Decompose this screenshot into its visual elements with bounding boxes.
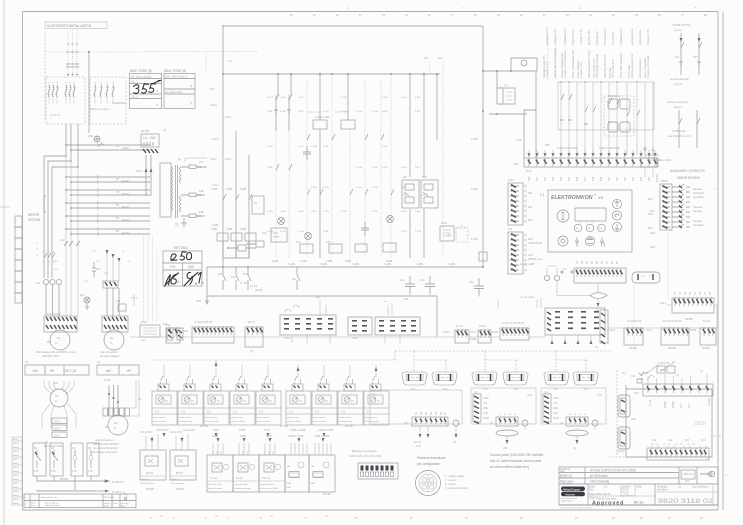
svg-text:K11B: K11B [323, 231, 329, 233]
svg-text:4-10B: 4-10B [300, 260, 307, 263]
small connector box 1x1 [503, 88, 515, 104]
bus to arrows [37, 476, 95, 481]
bus y71 right [483, 70, 537, 72]
svg-text:Marking of connectors: Marking of connectors [352, 450, 377, 453]
arrows above row2 [217, 438, 325, 442]
svg-text:X04: X04 [443, 388, 448, 391]
strip SP31B [690, 320, 716, 350]
risers x278 x291 [277, 74, 279, 95]
svg-text:24Vdc: 24Vdc [672, 400, 675, 408]
svg-text:K13: K13 [296, 241, 301, 244]
svg-text:1X0-2: 1X0-2 [225, 158, 232, 161]
center ladder bus y74 risers [275, 95, 277, 131]
bottom strip of title block [559, 504, 718, 506]
top bus from feed [223, 25, 483, 26]
svg-text:24V: 24V [210, 88, 215, 91]
svg-text:Size: Size [589, 489, 594, 492]
svg-text:(t): (t) [190, 102, 193, 105]
svg-text:4-10B: 4-10B [298, 231, 304, 233]
svg-text:meter: meter [273, 236, 280, 239]
svg-text:K16B: K16B [280, 231, 286, 233]
svg-text:combined 1TS: combined 1TS [620, 29, 623, 45]
svg-text:(k): (k) [596, 309, 599, 312]
svg-text:CUSTOMER'S INSTALLATION: CUSTOMER'S INSTALLATION [47, 24, 92, 28]
svg-text:1X0-2: 1X0-2 [298, 111, 305, 113]
switch box 3 [71, 443, 83, 476]
svg-text:HP: HP [50, 369, 54, 373]
capacitor C10 [474, 278, 484, 297]
box S1 [252, 196, 264, 214]
PE earth circle symbol [94, 136, 100, 142]
upper label block second tier [546, 27, 650, 45]
bottom ruler ticks [150, 516, 703, 520]
svg-text:K16B: K16B [372, 211, 378, 213]
dashed fuse cabinet box 2 [90, 77, 126, 124]
dryer contact component [118, 304, 126, 311]
svg-text:UL (Class RK5): UL (Class RK5) [165, 91, 182, 94]
svg-text:SP53B: SP53B [685, 318, 693, 321]
module frame [471, 388, 536, 424]
svg-text:K07: K07 [685, 439, 690, 442]
svg-text:1.1: 1.1 [540, 193, 545, 197]
svg-text:1K2: 1K2 [60, 239, 65, 242]
rail micro labels [36, 243, 131, 283]
wire y114 [489, 113, 527, 115]
svg-text:GND(k): GND(k) [708, 397, 711, 406]
button up [612, 199, 621, 208]
svg-text:TXD: TXD [553, 412, 558, 415]
svg-text:1F10: 1F10 [508, 179, 514, 182]
svg-text:1K1: 1K1 [54, 382, 59, 385]
svg-text:K16B: K16B [382, 97, 388, 99]
svg-text:Manual/: Manual/ [693, 188, 702, 191]
svg-text:K1 B: K1 B [264, 429, 270, 432]
output wires [181, 167, 207, 216]
fuse 1K6 [92, 262, 96, 277]
svg-text:(c): (c) [676, 374, 679, 377]
svg-text:2021-8: 2021-8 [13, 467, 19, 469]
svg-text:K14: K14 [326, 241, 331, 244]
svg-text:rpm: rpm [141, 339, 145, 342]
svg-text:pressure more: pressure more [631, 28, 634, 45]
svg-text:1X1: 1X1 [508, 228, 513, 231]
svg-text:1X0-2: 1X0-2 [401, 187, 408, 189]
wires above row2 cells [213, 443, 331, 455]
svg-text:kW: kW [33, 369, 38, 373]
cell SP111 [140, 450, 166, 480]
svg-text:(1C20): (1C20) [255, 289, 263, 292]
svg-text:4A/2P: 4A/2P [122, 232, 129, 235]
svg-text:solenoid valve: solenoid valve [208, 484, 223, 486]
oval below [566, 430, 588, 436]
svg-text:K14B: K14B [341, 97, 347, 99]
svg-text:X106: X106 [443, 331, 449, 334]
dsub X13a [472, 372, 497, 385]
curves above [285, 305, 299, 312]
svg-text:S2 (x): S2 (x) [236, 477, 243, 480]
top strip 1X9 [643, 384, 713, 396]
customer installation label box [45, 22, 107, 29]
delta motor wires [108, 385, 119, 415]
hour counter box [271, 228, 287, 242]
svg-text:see FIGURE on 9(1): see FIGURE on 9(1) [648, 159, 671, 162]
wires above SP111 [146, 434, 158, 450]
circle pin [592, 420, 598, 426]
svg-text:REV G: REV G [13, 495, 19, 497]
relay block K08 [421, 180, 438, 208]
wire L1 [67, 30, 69, 77]
svg-text:K07: K07 [403, 176, 408, 179]
svg-text:General: General [693, 220, 702, 223]
svg-text:2X04: 2X04 [441, 222, 447, 225]
right small cells [681, 470, 695, 479]
svg-text:150HR OR 80%: 150HR OR 80% [677, 176, 700, 180]
svg-text:4A/2P: 4A/2P [122, 193, 129, 196]
svg-text:Crossmatch: Crossmatch [560, 482, 573, 485]
strip X104 main [192, 327, 234, 343]
handwriting 9.1A [184, 272, 201, 286]
svg-text:+24: +24 [483, 402, 488, 405]
svg-text:4-105 4-105: 4-105 4-105 [645, 154, 659, 157]
svg-text:A01: A01 [528, 192, 533, 195]
svg-text:HP: HP [127, 369, 131, 373]
PE lamp circle [84, 297, 90, 303]
strip 1F10 box [508, 183, 523, 225]
labels right of 1F10 [528, 192, 533, 222]
svg-text:sensing com: sensing com [596, 31, 599, 45]
svg-text:1K1/2 TA1/2: 1K1/2 TA1/2 [47, 313, 61, 316]
svg-text:REV E: REV E [13, 479, 19, 481]
svg-text:4-10B: 4-10B [320, 263, 327, 266]
strip SP72B [609, 320, 643, 350]
svg-text:K10B: K10B [267, 167, 273, 169]
handwriting 355 [134, 80, 162, 93]
svg-text:K16B: K16B [401, 211, 407, 213]
contactor 1K7 [297, 267, 300, 290]
svg-text:SP6B: SP6B [661, 180, 668, 183]
svg-text:+ +: + + [384, 300, 388, 303]
svg-text:Pressure transducer: Pressure transducer [417, 456, 447, 460]
svg-text:103: 103 [552, 176, 555, 181]
frame border bottom [23, 509, 719, 511]
svg-text:1 MB 42 1: 1 MB 42 1 [682, 473, 694, 476]
svg-text:SP70B: SP70B [200, 425, 208, 428]
bottom labels [272, 260, 392, 263]
svg-text:1 fused + 1TS: 1 fused + 1TS [546, 62, 549, 78]
1F13 boxes [52, 418, 67, 424]
svg-text:X104: X104 [284, 337, 290, 340]
node marks [67, 43, 78, 45]
switch box 4 [87, 443, 99, 476]
svg-text:Automatic: Automatic [693, 192, 705, 195]
svg-text:109: 109 [600, 176, 603, 181]
F1 F2 F3 buttons [574, 224, 582, 232]
right vertical strip [600, 310, 608, 343]
wires with arrows down from 1X0 [145, 155, 147, 196]
svg-text:24V: 24V [150, 136, 157, 140]
atlas copco logo [561, 487, 585, 503]
rotated labels below strip [649, 397, 711, 408]
svg-text:1X0-2: 1X0-2 [212, 184, 219, 187]
svg-text:106: 106 [576, 176, 579, 181]
svg-text:4A/2P: 4A/2P [122, 219, 129, 222]
cell 8 [338, 376, 363, 425]
svg-text:104: 104 [560, 176, 563, 181]
svg-text:K11.1: K11.1 [609, 329, 616, 332]
svg-text:K12: K12 [668, 439, 673, 442]
oval below [496, 430, 518, 436]
svg-text:1X0-6: 1X0-6 [210, 104, 217, 107]
svg-text:RXD: RXD [483, 407, 488, 410]
svg-text:1X0-2: 1X0-2 [298, 97, 305, 99]
svg-text:5614: 5614 [104, 506, 110, 508]
icon volt [575, 237, 579, 247]
dashed bus y351 [152, 359, 395, 361]
dryer option bracket [44, 196, 46, 212]
junction dots on box top [560, 81, 638, 83]
svg-text:X04: X04 [514, 388, 519, 391]
svg-text:see FIGURE on 9(1): see FIGURE on 9(1) [668, 135, 691, 138]
svg-text:A09: A09 [528, 238, 533, 241]
frame left paper edge [3, 0, 5, 525]
arrowheads into strip [528, 153, 657, 157]
connector block X104 (grid) [280, 296, 336, 343]
svg-text:105: 105 [568, 176, 571, 181]
strip 1X1 box [508, 232, 523, 274]
contact K01 [223, 194, 226, 200]
svg-text:K16B: K16B [298, 211, 304, 213]
svg-text:4-10B 4-10B: 4-10B 4-10B [315, 116, 329, 119]
dashed vertical x634 [633, 285, 635, 352]
ladder dotted columns x429 x443 [429, 60, 431, 74]
svg-text:1x1: 1x1 [228, 60, 233, 63]
svg-text:SP32B: SP32B [60, 478, 68, 481]
svg-text:K10B: K10B [240, 188, 246, 191]
svg-text:17-18: 17-18 [240, 282, 247, 285]
svg-text:All other voltages: All other voltages [100, 355, 120, 358]
svg-text:K09: K09 [648, 227, 653, 230]
svg-text:K11: K11 [652, 439, 657, 442]
dsub X11b [432, 372, 457, 385]
bus from block to right strips [608, 327, 717, 329]
svg-text:1F13: 1F13 [54, 421, 60, 424]
strip 4pin [245, 327, 263, 347]
icon alarm button [585, 236, 594, 245]
rung bottom [223, 241, 249, 258]
svg-text:(d): (d) [45, 441, 48, 444]
strip box [524, 158, 658, 167]
hatch dark on contact column [679, 186, 682, 229]
svg-text:OPTION: OPTION [28, 218, 41, 222]
three phase wires down [65, 124, 67, 156]
pin hatches below 1X0 [143, 149, 158, 153]
svg-text:SF:1.15: SF:1.15 [65, 369, 76, 373]
svg-text:4-10B: 4-10B [471, 188, 478, 191]
svg-text:X10B: X10B [470, 338, 476, 341]
svg-text:A: A [201, 280, 204, 285]
svg-text:110: 110 [608, 176, 611, 181]
svg-text:PRESS(m): PRESS(m) [608, 95, 620, 98]
svg-text:1548: 1548 [286, 487, 292, 489]
svg-text:blowoff unload: blowoff unload [208, 488, 223, 490]
bus wire y337 left [130, 336, 455, 338]
svg-text:K16B: K16B [226, 228, 232, 231]
switch 1S3 [248, 267, 251, 290]
left feed into strip [524, 110, 536, 158]
ladder wire number labels [267, 97, 422, 233]
svg-text:1X0-2: 1X0-2 [401, 231, 408, 233]
svg-text:K16B: K16B [211, 228, 217, 231]
svg-text:1 fused + 1TS combined: 1 fused + 1TS combined [564, 50, 567, 78]
svg-text:X10: X10 [553, 388, 558, 391]
svg-text:K08: K08 [422, 176, 427, 179]
capacitor symbols mid ladder [303, 146, 311, 160]
coil box D [355, 244, 367, 252]
svg-text:F12: F12 [197, 215, 202, 218]
svg-text:SP72B: SP72B [629, 347, 637, 350]
svg-text:K11: K11 [675, 56, 680, 59]
svg-text:item: item [31, 504, 35, 507]
main feed wire down [88, 52, 90, 133]
svg-text:4-10B: 4-10B [448, 263, 455, 266]
delta motor M2 [108, 415, 128, 435]
transducer circle [416, 471, 441, 496]
dotted verticals group [276, 74, 391, 258]
svg-text:(m): (m) [544, 391, 548, 394]
svg-text:1TS: 1TS [34, 470, 39, 473]
dsub X13b [503, 372, 528, 385]
svg-text:4 : wired with dummy: 4 : wired with dummy [445, 487, 469, 490]
svg-text:(x): (x) [573, 447, 576, 450]
svg-text:K10B: K10B [272, 260, 278, 263]
svg-text:SP70B: SP70B [280, 425, 288, 428]
svg-text:A02: A02 [528, 206, 533, 209]
svg-text:as shown within dotted line): as shown within dotted line) [490, 465, 529, 469]
svg-text:K05: K05 [545, 144, 550, 147]
svg-text:K1 K2: K1 K2 [479, 325, 486, 328]
svg-text:AUXILIARY CONTACTS: AUXILIARY CONTACTS [670, 169, 705, 173]
svg-text:remote start/stop: remote start/stop [670, 78, 689, 81]
rotated labels above [415, 411, 447, 415]
switch box 2 [50, 443, 63, 476]
svg-text:24V: 24V [316, 296, 321, 299]
svg-text:1-10B: 1-10B [323, 211, 329, 213]
svg-text:PE: PE [105, 426, 109, 429]
small box on feeder x483 [479, 252, 487, 261]
bus wire y337 right [529, 336, 545, 338]
svg-text:4A/2P: 4A/2P [122, 180, 129, 183]
dotted drop from dashed branch [205, 52, 207, 74]
svg-text:10K(m): 10K(m) [656, 174, 659, 182]
breaker labels [116, 145, 129, 235]
svg-text:1TS: 1TS [51, 470, 56, 473]
svg-text:X11 & X04: X11 & X04 [170, 431, 182, 434]
svg-text:warning: warning [693, 210, 702, 213]
svg-text:K10B: K10B [415, 97, 421, 99]
svg-text:1X0-2: 1X0-2 [267, 97, 274, 99]
svg-text:(c): (c) [700, 370, 703, 373]
left pin column [543, 394, 551, 422]
svg-text:K10B: K10B [345, 260, 351, 263]
svg-text:DP filter alarm: DP filter alarm [141, 482, 155, 485]
svg-text:CSA - HRC Form 1Y: CSA - HRC Form 1Y [165, 76, 188, 79]
frame border left [22, 12, 24, 511]
svg-text:C1 C2: C1 C2 [250, 285, 258, 288]
svg-text:2022-3: 2022-3 [13, 499, 19, 501]
valve cell S2 [233, 451, 259, 492]
svg-text:(m): (m) [504, 84, 508, 87]
svg-text:GND: GND [553, 397, 559, 400]
bus wire y337 mid [469, 336, 500, 338]
svg-text:K14: K14 [163, 323, 168, 326]
svg-text:Approved: Approved [592, 501, 624, 507]
frame tick right [713, 435, 721, 437]
svg-text:1X6: 1X6 [514, 163, 519, 166]
svg-text:(k): (k) [163, 129, 166, 132]
svg-text:M2: M2 [110, 337, 114, 340]
svg-text:X104: X104 [182, 330, 188, 333]
small rounded boxes pairs inside contact region [604, 95, 634, 136]
svg-text:1K1: 1K1 [116, 300, 121, 303]
svg-text:100: 100 [685, 480, 690, 483]
svg-text:1TS wired com: 1TS wired com [604, 28, 607, 45]
svg-text:4-10B 4-10B: 4-10B 4-10B [520, 263, 534, 266]
svg-text:K10B: K10B [211, 188, 217, 191]
solid verticals group [320, 74, 437, 258]
mid cells [589, 486, 642, 500]
left connector 2 [617, 427, 630, 453]
svg-text:11B: 11B [199, 190, 204, 193]
svg-text:16B: 16B [199, 211, 204, 214]
svg-text:1X0-2: 1X0-2 [225, 116, 232, 119]
svg-text:1 fused + 1TS wired: 1 fused + 1TS wired [647, 55, 650, 78]
svg-text:combined 1TS: combined 1TS [564, 29, 567, 45]
svg-text:operation: operation [693, 196, 704, 199]
left feeder [498, 298, 541, 308]
svg-text:113: 113 [632, 176, 635, 181]
circle pin [453, 420, 459, 426]
valve cell Y51 [259, 451, 285, 492]
svg-text:K14B: K14B [382, 111, 388, 113]
ladder rail x236 [235, 131, 237, 258]
bottom pin strip [496, 417, 518, 426]
svg-text:Y1 (x): Y1 (x) [210, 477, 217, 480]
svg-text:1X0-2: 1X0-2 [210, 158, 217, 161]
cell E2 [309, 455, 335, 496]
svg-text:DP DU filter 1TS: DP DU filter 1TS [612, 59, 615, 78]
svg-text:2F21: 2F21 [141, 321, 147, 324]
svg-text:LINE-VALVE: LINE-VALVE [528, 242, 542, 245]
svg-text:A10: A10 [528, 254, 533, 257]
svg-text:1 fused + 1TS: 1 fused + 1TS [580, 62, 583, 78]
svg-text:K10B: K10B [212, 435, 218, 438]
1F10 pins [510, 185, 519, 223]
svg-text:(mod): (mod) [617, 450, 624, 453]
svg-text:PE: PE [47, 341, 51, 344]
svg-text:1TS: 1TS [72, 470, 77, 473]
svg-text:(m): (m) [622, 372, 626, 375]
interlock wires [681, 33, 699, 75]
svg-text:Star connection: Star connection [100, 351, 118, 354]
svg-text:SP57B: SP57B [668, 347, 676, 350]
lamp circle 2 [305, 233, 312, 240]
svg-text:1K5: 1K5 [80, 294, 85, 297]
svg-text:Deriv/blok: Deriv/blok [657, 489, 668, 492]
svg-text:TXD: TXD [483, 412, 488, 415]
bottom strip labels [652, 439, 706, 442]
strip SP53B (upper right) [660, 291, 717, 328]
logo cell divider [587, 484, 589, 505]
